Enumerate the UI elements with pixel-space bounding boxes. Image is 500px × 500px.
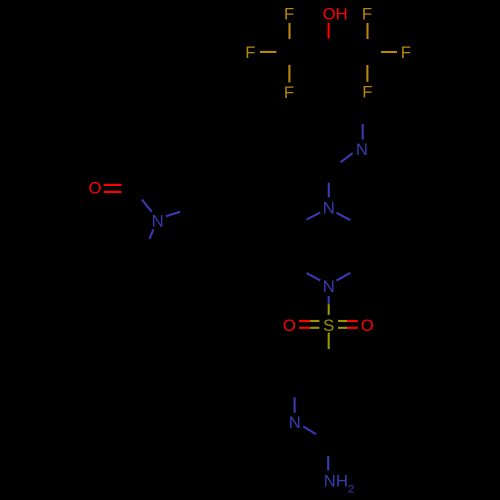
wire O-C half-bond [328,23,330,39]
wire N-aryl half-bond (right) [166,212,180,217]
wire C-F6 half-bond [366,65,368,82]
wire Nring-C6 half-bond (vertical up) [294,397,296,412]
wire C-F5 half-bond [288,65,290,83]
wire N-methyl half-bond (down-left) [150,229,154,238]
wire Npip top down-right half-bond [337,213,351,220]
wire S=O left double bond: O halves (red) [299,320,310,322]
svg-text:OH: OH [323,4,348,23]
sulfur S of sulfonyl [323,316,334,335]
wire N-S bond: S half (olive) [328,304,330,315]
svg-text:N: N [152,211,164,230]
svg-text:S: S [323,316,334,335]
hydroxyl OH [323,4,348,23]
svg-text:F: F [284,83,294,102]
wire C-F3 half-bond [260,51,277,53]
svg-text:F: F [362,4,372,23]
wire C2-NH2 half-bond (vertical) [327,456,329,470]
svg-text:F: F [401,43,411,62]
fluorine F5 (left CF3, down) [284,83,294,102]
wire Npip bottom up-right half-bond [337,273,351,281]
wire C2-Npip half-bond (vertical) [328,183,330,198]
fluorine F4 (right CF3, right) [401,43,411,62]
wire S-C(aryl) half-bond (olive, down) [328,333,330,349]
wire S=O left double bond: S halves (olive) [310,320,319,322]
wire C-F2 half-bond [366,23,368,39]
svg-text:O: O [89,179,102,198]
svg-text:F: F [362,83,372,102]
fluorine F6 (right CF3, down) [362,83,372,102]
wire N-S bond: N half (blue) [328,296,330,304]
svg-text:O: O [283,316,296,335]
oxygen O right of sulfonyl [361,316,374,335]
wire C-F1 half-bond [288,23,290,39]
amino group NH2 [324,471,354,495]
wire N-C2 half-bond (diagonal down-left) [341,153,353,162]
fluorine F1 (top-left CF3, up) [284,4,294,23]
fluorine F2 (top-right CF3, up) [362,4,372,23]
piperazine N top [323,199,335,218]
fluorine F3 (left CF3, left) [245,43,255,62]
wire O=C double bond: O halves (red) [104,184,122,186]
pyridine N (upper right ring) [356,140,368,159]
wire C(=O)-N half-bond (diagonal) [142,200,152,212]
svg-text:F: F [245,43,255,62]
svg-text:F: F [284,4,294,23]
oxygen O left of sulfonyl [283,316,296,335]
svg-text:N: N [289,413,301,432]
amide oxygen O [89,179,102,198]
svg-text:O: O [361,316,374,335]
aminopyridine ring N [289,413,301,432]
piperazine N bottom [323,277,335,296]
wire Npip top down-left half-bond [307,213,321,220]
svg-text:N: N [323,199,335,218]
wire Nring-C2 half-bond (diagonal down-right) [303,427,316,435]
wire N-C6 half-bond (vertical up) [362,124,364,140]
wire S=O right double bond: S halves (olive) [338,320,347,322]
svg-text:N: N [323,277,335,296]
wire S=O right double bond: O halves (red) [347,320,358,322]
amide nitrogen N [152,211,164,230]
wire C-F4 half-bond [381,51,397,53]
svg-text:N: N [356,140,368,159]
wire Npip bottom up-left half-bond [307,273,321,280]
